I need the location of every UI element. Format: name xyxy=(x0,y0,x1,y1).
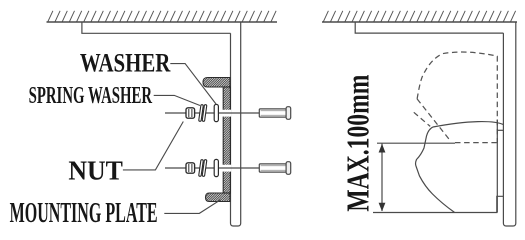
svg-text:SPRING WASHER: SPRING WASHER xyxy=(29,83,153,109)
svg-text:NUT: NUT xyxy=(68,155,123,185)
svg-text:MOUNTING PLATE: MOUNTING PLATE xyxy=(10,198,158,229)
svg-text:WASHER: WASHER xyxy=(80,49,171,78)
svg-text:MAX.100mm: MAX.100mm xyxy=(340,74,376,211)
